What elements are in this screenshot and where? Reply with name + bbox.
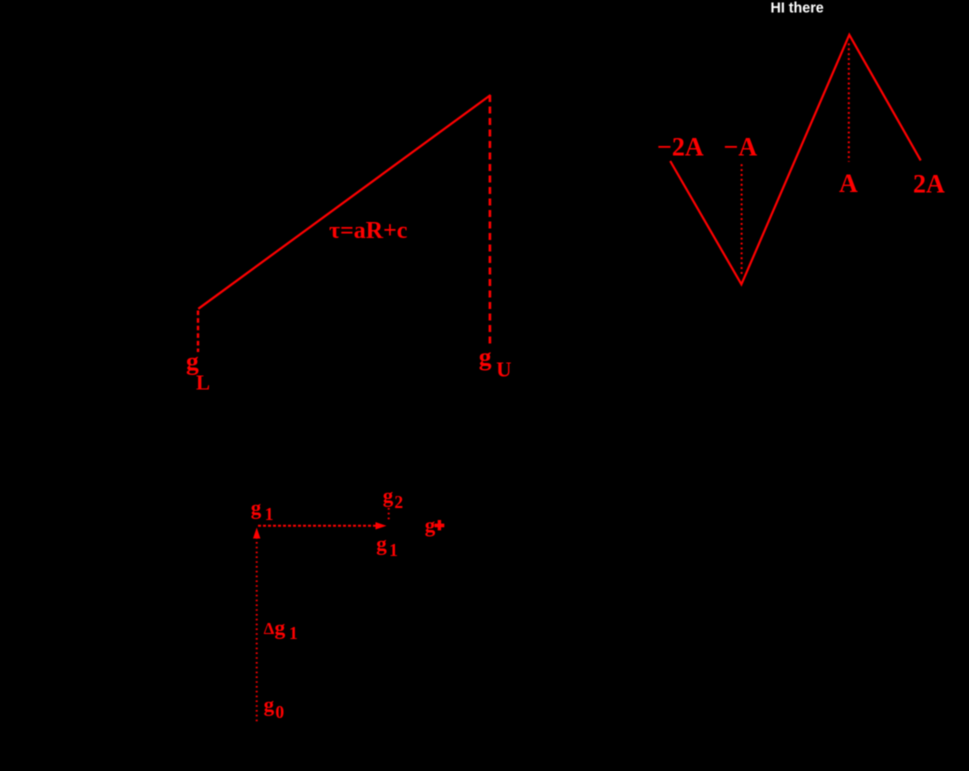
svg-text:1: 1 [389, 540, 398, 560]
svg-text:g: g [425, 513, 436, 537]
svg-text:g: g [251, 496, 262, 520]
svg-text:−A: −A [724, 133, 758, 162]
svg-text:L: L [196, 371, 210, 395]
svg-text:g: g [479, 342, 492, 371]
svg-text:0: 0 [275, 702, 284, 722]
svg-text:g: g [275, 615, 286, 639]
svg-text:1: 1 [265, 504, 274, 524]
plot2 dotted line at A [848, 43, 850, 161]
svg-text:τ=aR+c: τ=aR+c [329, 218, 408, 244]
svg-text:2: 2 [394, 492, 403, 512]
plot3 short dotted line below g_2 [388, 508, 390, 521]
svg-text:g: g [376, 531, 387, 555]
plot1 left dashed drop line [197, 311, 199, 353]
plot1 solid diagonal line tau=aR+c [198, 95, 490, 309]
svg-text:A: A [839, 169, 858, 198]
svg-text:g: g [264, 693, 275, 717]
svg-text:−2A: −2A [657, 133, 704, 162]
svg-text:Δ: Δ [264, 619, 275, 638]
plot2 dotted line at -A [741, 164, 743, 276]
svg-text:2A: 2A [913, 170, 945, 199]
plot3 vertical arrow head [253, 528, 260, 539]
plot1 right dashed drop line [489, 95, 492, 346]
plot2 triangle wave polyline [670, 35, 921, 284]
plot3 horizontal dotted arrow shaft [258, 525, 377, 527]
svg-text:HI there: HI there [771, 0, 824, 16]
svg-text:U: U [496, 358, 511, 382]
svg-text:g: g [383, 484, 394, 508]
plot3 horizontal arrow head [376, 522, 387, 529]
svg-text:1: 1 [289, 623, 298, 643]
plot3 vertical dotted arrow shaft [256, 538, 258, 721]
